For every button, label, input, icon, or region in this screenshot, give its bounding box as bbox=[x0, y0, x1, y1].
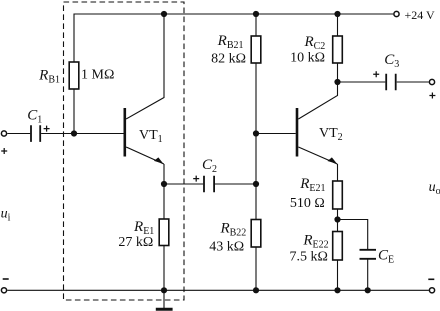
junction: CE on ground rail bbox=[365, 287, 371, 293]
wire: RB21 bottom through base node to RB22 bbox=[255, 63, 257, 220]
wire: supply rail to RC2 bbox=[337, 14, 339, 36]
polarity +: right of C1 bbox=[44, 126, 50, 132]
wire: input terminal to C1 bbox=[7, 133, 30, 135]
svg-text:7.5 kΩ: 7.5 kΩ bbox=[289, 249, 327, 264]
junction: emitter / C2 tap node bbox=[161, 181, 167, 187]
transistor VT1 base bar bbox=[124, 108, 127, 157]
junction: RC2 on supply rail bbox=[334, 11, 340, 17]
capacitor C1 bbox=[31, 125, 40, 142]
junction: C2 / divider node bbox=[253, 181, 259, 187]
wire: C2 to RB21/RB22 column bbox=[215, 183, 256, 185]
wire: RC2 bottom to VT2 collector diagonal bbox=[298, 63, 337, 119]
wire: VT2 emitter vertical to RE21 bbox=[337, 164, 339, 181]
wire: collector node to C3 bbox=[338, 81, 386, 83]
capacitor CE bbox=[360, 250, 377, 259]
wire: RB22 to ground rail bbox=[255, 247, 257, 290]
wire: CE bottom plate to ground rail bbox=[367, 259, 369, 291]
polarity -: above bottom-right terminal bbox=[428, 278, 434, 280]
resistor RB21 bbox=[251, 36, 261, 63]
wire: RB1 bottom lead to base node bbox=[73, 89, 75, 134]
wire: top +24V supply rail with RB1 riser bbox=[74, 14, 393, 62]
terminal: output uo top bbox=[429, 79, 434, 84]
capacitor C3 bbox=[386, 74, 396, 91]
junction: RE1 on ground rail bbox=[161, 287, 167, 293]
polarity +: left of C3 bbox=[373, 71, 379, 77]
terminal: input ui bottom bbox=[1, 288, 6, 293]
terminal: input ui top bbox=[1, 131, 6, 136]
polarity -: above bottom-left terminal bbox=[3, 278, 9, 280]
wire: C1 to VT1 base bbox=[41, 133, 123, 135]
svg-text:10 kΩ: 10 kΩ bbox=[290, 50, 325, 65]
terminal: +24 V bbox=[394, 11, 399, 16]
svg-text:+24 V: +24 V bbox=[405, 8, 436, 22]
junction: collector / output node bbox=[334, 79, 340, 85]
dashed box (first stage boundary) bbox=[64, 2, 185, 300]
ground bbox=[163, 290, 165, 308]
polarity +: below output terminal bbox=[429, 93, 435, 99]
wire: supply rail to RB21 bbox=[255, 14, 257, 36]
junction: RB21 on supply rail bbox=[253, 11, 259, 17]
junction: RB1/base node bbox=[71, 130, 77, 136]
svg-text:510 Ω: 510 Ω bbox=[290, 196, 325, 211]
svg-text:1 MΩ: 1 MΩ bbox=[81, 67, 114, 82]
wire: base node to VT2 bbox=[256, 133, 296, 135]
transistor VT2 base bar bbox=[296, 108, 299, 157]
resistor RE1 bbox=[159, 219, 169, 246]
wire: VT1 emitter vertical to RE1 bbox=[163, 164, 165, 219]
capacitor C2 bbox=[204, 176, 214, 193]
svg-text:82 kΩ: 82 kΩ bbox=[211, 52, 246, 67]
wire: bottom ground rail bbox=[7, 289, 429, 291]
transistor VT1 emitter diagonal with arrow bbox=[126, 147, 164, 164]
wire: emitter node to C2 bbox=[164, 183, 203, 185]
polarity +: left of C2 bbox=[193, 176, 199, 182]
svg-text:27 kΩ: 27 kΩ bbox=[118, 235, 153, 250]
junction: VT2 base node bbox=[253, 130, 259, 136]
resistor RC2 bbox=[333, 36, 343, 63]
resistor RE21 bbox=[333, 181, 343, 209]
wire: CE tap to CE top plate bbox=[338, 220, 368, 250]
wire: C3 to output terminal bbox=[397, 81, 429, 83]
transistor VT2 emitter diagonal with arrow bbox=[298, 147, 337, 164]
polarity +: below input terminal bbox=[1, 148, 7, 154]
junction: VT1 collector on supply rail bbox=[161, 11, 167, 17]
junction: RE21/RE22 node (CE tap) bbox=[334, 216, 340, 222]
wire: RE22 to ground rail bbox=[337, 260, 339, 290]
terminal: output uo bottom bbox=[429, 288, 434, 293]
wire: VT1 collector riser and diagonal bbox=[126, 14, 164, 119]
wire: RE1 to ground rail bbox=[163, 246, 165, 291]
resistor RE22 bbox=[333, 232, 343, 261]
junction: RB22 on ground rail bbox=[253, 287, 259, 293]
wire: RE21 to RE22 bbox=[337, 209, 339, 232]
resistor RB22 bbox=[251, 220, 261, 248]
junction: RE22 on ground rail bbox=[334, 287, 340, 293]
resistor RB1 bbox=[69, 62, 79, 89]
svg-text:43 kΩ: 43 kΩ bbox=[209, 239, 244, 254]
